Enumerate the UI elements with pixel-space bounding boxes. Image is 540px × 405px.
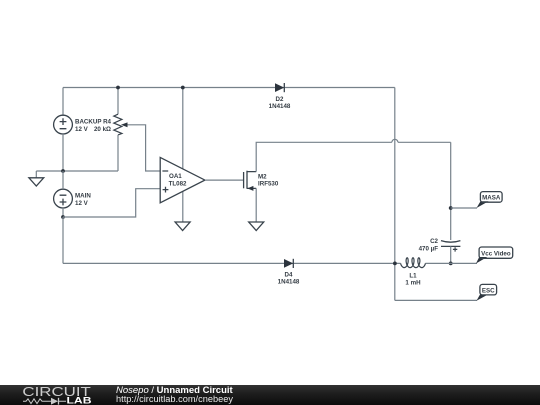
net tag ESC (477, 284, 497, 300)
capacitor C2 polarized (441, 241, 460, 264)
svg-text:Vcc Video: Vcc Video (481, 250, 511, 257)
wire top rail from BACKUP to right column (63, 87, 395, 89)
junction at 63,171 (61, 169, 65, 173)
wire MAIN bottom lead (62, 208, 64, 217)
svg-text:470 µF: 470 µF (419, 246, 439, 253)
voltage source V-BACKUP (54, 115, 73, 134)
wire right column 2 down to MASA junction (450, 142, 452, 240)
svg-text:1 mH: 1 mH (405, 280, 421, 287)
label L1 1mH (405, 273, 421, 287)
inductor L1 coil (401, 258, 426, 268)
logo CIRCUIT LAB (22, 384, 92, 405)
svg-text:12 V: 12 V (75, 200, 89, 207)
wire BACKUP top lead (62, 88, 64, 116)
junction at 450.7,208 (449, 206, 453, 210)
svg-text:ESC: ESC (482, 288, 495, 295)
svg-text:C2: C2 (430, 238, 438, 245)
svg-text:LAB: LAB (67, 396, 92, 405)
wire M2 drain up and right rail (256, 142, 392, 171)
svg-text:BACKUP: BACKUP (75, 118, 101, 125)
wire M2 source down (255, 188, 257, 222)
svg-text:D4: D4 (285, 271, 293, 278)
potentiometer R4 zigzag (114, 114, 122, 135)
svg-text:R4: R4 (103, 118, 111, 125)
op-amp OA1 (160, 88, 205, 223)
voltage source V-MAIN (54, 189, 73, 208)
wire BACKUP bottom lead (62, 134, 64, 171)
label D4 1N4148 (278, 271, 300, 285)
wire hop over vertical at 394.9,142.3 (392, 139, 398, 142)
wire right column from top rail down to ESC row (394, 88, 396, 301)
junction at 450.7,263.4 (449, 262, 453, 266)
svg-text:http://circuitlab.com/cnebeey: http://circuitlab.com/cnebeey (116, 394, 234, 404)
svg-text:TL082: TL082 (169, 180, 187, 187)
wire left column down to bottom rail (62, 217, 64, 263)
label D2 1N4148 (269, 96, 291, 110)
wire bottom rail (63, 262, 477, 264)
ground GND1 left (29, 171, 44, 186)
junction at 118,87.5 (116, 86, 120, 90)
svg-text:IRF530: IRF530 (258, 181, 279, 188)
diode D2 (275, 83, 284, 92)
junction at 182,87.5 (181, 86, 185, 90)
label C2 470uF (419, 238, 439, 253)
nmos M2 (244, 171, 257, 191)
svg-text:L1: L1 (409, 273, 417, 280)
label M2 IRF530 (258, 173, 279, 187)
svg-text:1N4148: 1N4148 (278, 278, 300, 285)
junction at 394.9,263.4 (393, 262, 397, 266)
footer bar (0, 385, 540, 405)
label MAIN 12V (75, 192, 91, 207)
wire R4 top lead (117, 88, 119, 115)
svg-text:OA1: OA1 (169, 173, 182, 180)
svg-text:12 V: 12 V (75, 126, 89, 133)
wire drain rail right of hop (398, 141, 451, 143)
wire op-amp output to gate (205, 179, 244, 181)
svg-text:MAIN: MAIN (75, 192, 91, 199)
svg-text:M2: M2 (258, 173, 267, 180)
svg-text:20 kΩ: 20 kΩ (94, 126, 111, 133)
label BACKUP 12V (75, 118, 101, 133)
net tag MASA (477, 192, 503, 208)
svg-text:MASA: MASA (482, 195, 501, 202)
label R4 20k (94, 118, 112, 133)
wire R4 bottom lead (117, 135, 119, 171)
ground GND3 below M2 (249, 222, 264, 231)
svg-text:D2: D2 (276, 96, 284, 103)
wire ESC row (395, 299, 477, 301)
diode D4 (284, 259, 293, 268)
footer text (116, 385, 234, 404)
label OA1 TL082 (169, 173, 187, 187)
wiper arrow of R4 (121, 122, 160, 171)
wire ground row y171 (36, 170, 118, 172)
ground GND2 below op-amp (175, 222, 190, 231)
junction at 63,217 (61, 215, 65, 219)
net tag Vcc Video (476, 247, 513, 264)
wire MASA row (451, 207, 477, 209)
svg-text:1N4148: 1N4148 (269, 103, 291, 110)
wire MAIN top lead (62, 171, 64, 189)
wire noninverting input route (63, 189, 160, 217)
